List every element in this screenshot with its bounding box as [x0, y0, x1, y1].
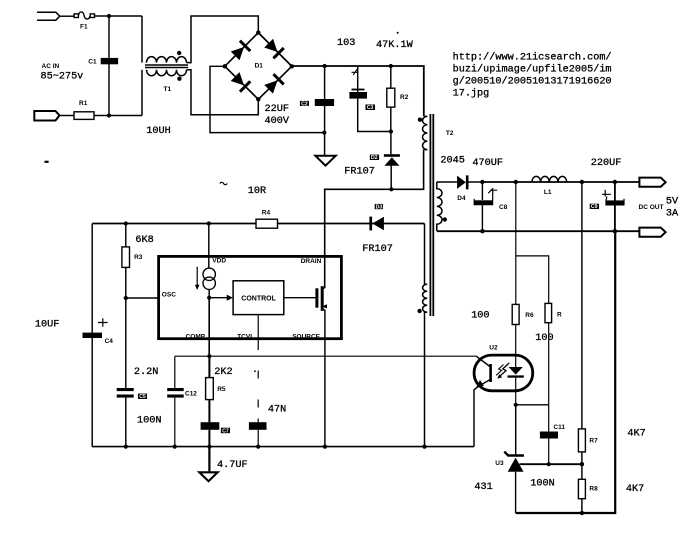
label T1 — [164, 86, 172, 93]
node divider junction — [580, 462, 584, 466]
node VDD rail pin — [207, 221, 211, 225]
svg-text:5V: 5V — [666, 197, 679, 208]
wire current source to node — [208, 290, 210, 298]
wire C11 column — [548, 405, 550, 464]
svg-text:10UH: 10UH — [146, 126, 170, 137]
text 100 right — [535, 333, 553, 344]
svg-text:4K7: 4K7 — [627, 428, 645, 439]
label R6 — [525, 312, 534, 319]
wire bottom feedback line — [516, 231, 616, 513]
label C1 — [88, 59, 97, 66]
label D3 — [375, 204, 383, 211]
capacitor C5 — [117, 388, 134, 398]
wire C1 column — [108, 16, 110, 116]
svg-text:COMP: COMP — [186, 333, 206, 340]
node C9 top — [613, 180, 617, 184]
svg-text:g/200510/20051013171916620: g/200510/20051013171916620 — [453, 76, 612, 88]
svg-text:100: 100 — [535, 333, 553, 344]
svg-text:D1: D1 — [255, 63, 264, 70]
node drain D2 junction — [389, 187, 393, 191]
current source arrow head — [195, 285, 200, 290]
text 4K7 top — [627, 428, 645, 439]
wire — [60, 115, 75, 117]
node bus aux — [422, 445, 426, 449]
node bridge right — [290, 64, 294, 68]
svg-text:3A: 3A — [666, 209, 679, 220]
text 220UF — [591, 158, 622, 169]
dash mark — [45, 161, 49, 163]
label TCVL — [237, 333, 254, 340]
label T2 — [446, 130, 454, 137]
node bus source — [323, 445, 327, 449]
svg-text:C8: C8 — [499, 204, 508, 211]
svg-text:400V: 400V — [265, 116, 290, 127]
node ref C11 — [547, 462, 551, 466]
D1 diode bottom-left — [230, 71, 251, 92]
label R5 — [217, 386, 226, 393]
text 2.2N — [134, 367, 158, 378]
bridge rectifier D1 — [225, 33, 292, 100]
T2 aux winding — [423, 224, 428, 447]
control block U1 — [233, 281, 284, 315]
svg-text:R6: R6 — [525, 312, 534, 319]
svg-text:C3: C3 — [367, 105, 374, 111]
label D2 — [370, 155, 379, 162]
node L1 left junction — [514, 180, 518, 184]
capacitor C7 — [201, 422, 220, 430]
wire arrow to control — [209, 295, 233, 301]
svg-text:22UF: 22UF — [265, 104, 289, 115]
label OSC — [162, 292, 176, 299]
wire C2 column — [324, 66, 326, 156]
svg-text:T1: T1 — [164, 86, 172, 93]
T2 secondary winding — [437, 182, 442, 231]
U2 photon arrows — [496, 363, 509, 379]
T2 primary phase dot — [418, 118, 422, 122]
wire drain line — [325, 150, 424, 289]
wire feedback column R6 — [515, 182, 517, 304]
svg-text:4K7: 4K7 — [626, 484, 644, 495]
wire branch to R — [516, 256, 549, 304]
wire 47N to bus — [257, 430, 259, 447]
text 100N — [137, 415, 161, 426]
text 2045 — [440, 155, 464, 166]
svg-text:10UF: 10UF — [35, 320, 59, 331]
svg-text:U3: U3 — [495, 460, 504, 467]
node R2 top — [389, 64, 393, 68]
wire — [60, 15, 74, 17]
T1 phase dot top — [177, 51, 181, 55]
svg-text:R3: R3 — [134, 254, 143, 261]
svg-text:431: 431 — [474, 482, 492, 493]
node bus C12 — [173, 445, 177, 449]
node bus C7 — [207, 445, 211, 449]
transformer T1 common-mode choke — [142, 16, 258, 116]
text AC IN — [42, 63, 60, 70]
wire VDD rail — [92, 223, 424, 225]
node VDD rail R3 — [124, 221, 128, 225]
node bridge bottom — [256, 97, 260, 101]
text 85~275v — [41, 72, 84, 83]
wire U3 cathode — [515, 405, 517, 456]
svg-text:OSC: OSC — [162, 292, 176, 299]
text ~ mark — [220, 182, 227, 185]
text 100N bottom — [530, 478, 554, 489]
label DC OUT — [639, 204, 664, 211]
svg-text:C5: C5 — [139, 394, 146, 400]
wire gate line — [284, 297, 316, 299]
svg-text:47K.1W: 47K.1W — [376, 40, 414, 51]
text 5V — [666, 197, 679, 208]
wire main positive rail — [292, 66, 424, 116]
resistor R1 — [74, 112, 94, 120]
diode D4 — [437, 175, 483, 189]
node bottom rail C8 — [480, 229, 484, 233]
wire C4 column — [91, 224, 93, 447]
DC output terminal bottom — [639, 228, 665, 237]
label DRAIN — [301, 258, 322, 265]
ground symbol comp — [199, 472, 217, 481]
svg-text:17.jpg: 17.jpg — [453, 88, 490, 100]
svg-text:L1: L1 — [544, 189, 552, 196]
capacitor C3 — [349, 66, 391, 132]
label R3 — [134, 254, 143, 261]
node bottom rail C9 — [613, 229, 617, 233]
node bridge top — [256, 30, 260, 34]
resistor R8 — [578, 464, 585, 513]
text 4K7 bottom — [626, 484, 644, 495]
svg-text:C4: C4 — [105, 338, 114, 345]
node LED cathode junction — [514, 403, 518, 407]
svg-text:100N: 100N — [530, 478, 554, 489]
current source U1 — [197, 267, 215, 290]
svg-text:C9: C9 — [591, 204, 598, 210]
resistor R6 — [512, 304, 519, 324]
text url line3 — [453, 76, 612, 88]
capacitor C11 — [540, 432, 558, 439]
wire C5 column — [125, 298, 127, 447]
svg-text:85~275v: 85~275v — [41, 72, 84, 83]
svg-text:R: R — [557, 312, 562, 319]
svg-text:C11: C11 — [553, 424, 565, 431]
capacitor C4 — [83, 318, 108, 338]
T2 aux phase dot — [417, 309, 421, 313]
text 3A — [666, 209, 679, 220]
svg-text:F1: F1 — [80, 24, 88, 31]
svg-text:U2: U2 — [489, 345, 498, 352]
text 2K2 — [214, 367, 232, 378]
DC output terminal top — [639, 178, 665, 187]
fuse F1 — [74, 12, 94, 19]
label R2 — [400, 94, 409, 101]
label C11 — [553, 424, 565, 431]
svg-text:R1: R1 — [79, 100, 88, 107]
D1 diode top-right — [263, 38, 284, 59]
svg-text:R4: R4 — [262, 210, 271, 217]
svg-text:FR107: FR107 — [344, 167, 375, 178]
label R1 — [79, 100, 88, 107]
label C9 — [590, 204, 599, 211]
diode D2 — [384, 132, 400, 190]
text FR107 lower — [362, 244, 393, 255]
optocoupler U2 — [474, 355, 533, 391]
text 10UH — [146, 126, 170, 137]
label D4 — [457, 195, 466, 202]
AC input terminal top — [37, 12, 60, 20]
text 10R — [248, 186, 266, 197]
inductor L1 — [532, 176, 567, 182]
svg-text:6K8: 6K8 — [135, 235, 153, 246]
wire R7 column — [581, 182, 583, 429]
resistor R — [545, 303, 552, 322]
text 47N — [268, 405, 286, 416]
node COMP feedback junction — [207, 354, 211, 358]
svg-text:C1: C1 — [88, 59, 97, 66]
text url line2 — [453, 64, 612, 76]
wire ref line — [520, 463, 583, 465]
svg-text:10R: 10R — [248, 186, 266, 197]
node junction top — [107, 14, 111, 18]
diode D3 — [369, 217, 384, 231]
T2 secondary phase dot — [443, 217, 447, 221]
node R8 bottom — [580, 511, 584, 515]
label C2 — [300, 101, 309, 108]
resistor R5 — [206, 356, 214, 422]
wire ground stub — [208, 447, 210, 473]
IC U1 box — [159, 256, 342, 338]
text 103 — [337, 38, 355, 49]
wire VDD pin column — [208, 224, 210, 269]
label C12 — [185, 390, 197, 397]
ground symbol primary — [315, 156, 335, 166]
svg-text:2K2: 2K2 — [214, 367, 232, 378]
text 6K8 — [135, 235, 153, 246]
svg-text:R8: R8 — [589, 485, 598, 492]
capacitor C2 — [315, 99, 334, 106]
U2 LED — [508, 367, 524, 405]
label L1 — [544, 189, 552, 196]
label R8 — [589, 485, 598, 492]
capacitor C1 — [101, 58, 118, 64]
text 431 — [474, 482, 492, 493]
label R — [557, 312, 562, 319]
resistor R4 — [256, 219, 278, 228]
text FR107 upper — [344, 167, 375, 178]
svg-text:R2: R2 — [400, 94, 409, 101]
D1 diode bottom-right — [263, 73, 284, 94]
node bridge left — [223, 64, 227, 68]
label C5 — [138, 394, 147, 401]
svg-text:R5: R5 — [217, 386, 226, 393]
resistor R2 — [387, 66, 395, 132]
text 4.7UF — [217, 460, 248, 471]
wire C12 column — [174, 356, 176, 446]
wire R6 to LED — [515, 325, 517, 368]
text 100 left — [471, 311, 489, 322]
label C3 — [366, 105, 376, 112]
resistor R3 — [122, 224, 130, 299]
svg-text:47N: 47N — [268, 405, 286, 416]
text url line4 — [453, 88, 490, 100]
node COMP internal — [207, 296, 211, 300]
wire bottom rail left — [94, 115, 142, 117]
resistor R7 — [578, 429, 585, 464]
wire top rail left — [95, 15, 143, 17]
svg-text:2.2N: 2.2N — [134, 367, 158, 378]
wire comp feedback line — [175, 355, 477, 357]
svg-text:4.7UF: 4.7UF — [217, 460, 248, 471]
wire ground bus — [92, 446, 474, 448]
svg-text:100: 100 — [471, 311, 489, 322]
wire OSC pin — [126, 297, 159, 299]
wire R down — [548, 323, 550, 405]
capacitor 47N — [249, 422, 267, 430]
node C2 top — [323, 64, 327, 68]
svg-text:D3: D3 — [376, 204, 383, 210]
svg-text:C12: C12 — [185, 390, 197, 397]
svg-text:C7: C7 — [222, 428, 229, 434]
svg-text:buzi/upimage/upfile2005/im: buzi/upimage/upfile2005/im — [453, 64, 612, 76]
node C2 bottom junction — [322, 131, 326, 135]
svg-text:http://www.21icsearch.com/: http://www.21icsearch.com/ — [453, 52, 612, 64]
svg-text:TCVL: TCVL — [237, 333, 254, 340]
T2 primary winding — [423, 116, 428, 149]
wire output top rail — [482, 181, 639, 183]
text 47K.1W — [376, 32, 414, 51]
node output C8 top — [480, 180, 484, 184]
node snubber bottom — [389, 129, 393, 133]
svg-text:DRAIN: DRAIN — [301, 258, 322, 265]
label D1 — [255, 63, 264, 70]
node R3 OSC junction — [124, 296, 128, 300]
text 470UF — [472, 158, 503, 169]
label F1 — [80, 24, 88, 31]
label R4 — [262, 210, 271, 217]
label U3 — [495, 460, 504, 467]
D1 diode top-left — [230, 40, 251, 61]
svg-text:470UF: 470UF — [472, 158, 503, 169]
svg-text:CONTROL: CONTROL — [241, 295, 276, 302]
svg-text:100N: 100N — [137, 415, 161, 426]
svg-text:C2: C2 — [301, 101, 308, 107]
label VDD — [212, 258, 226, 265]
svg-text:D2: D2 — [371, 155, 378, 161]
wire COMP column — [208, 298, 210, 357]
text url line1 — [453, 52, 612, 64]
svg-text:FR107: FR107 — [362, 244, 393, 255]
label COMP — [186, 333, 206, 340]
U2 phototransistor — [474, 356, 492, 446]
label C7 — [221, 428, 230, 435]
label C4 — [105, 338, 114, 345]
mosfet U1 — [315, 286, 327, 311]
transformer T2 core — [430, 114, 433, 316]
svg-text:T2: T2 — [446, 130, 454, 137]
node bus C5 — [124, 445, 128, 449]
shunt regulator U3 — [504, 452, 524, 513]
svg-text:2045: 2045 — [440, 155, 464, 166]
svg-text:D4: D4 — [457, 195, 466, 202]
svg-text:SOURCE: SOURCE — [292, 334, 320, 341]
T1 phase dot bottom — [177, 77, 181, 81]
wire LED cathode to R — [516, 404, 549, 406]
svg-text:R7: R7 — [589, 438, 598, 445]
label C8 — [499, 204, 508, 211]
node junction bottom — [107, 113, 111, 117]
label U2 — [489, 345, 498, 352]
capacitor C9 — [602, 182, 624, 231]
wire bridge minus bus — [210, 66, 324, 132]
wire C7 to bus — [208, 430, 210, 447]
wire source column — [324, 310, 326, 447]
node L1 right junction — [580, 180, 584, 184]
node bus 47N — [256, 445, 260, 449]
text 10UF — [35, 320, 59, 331]
label R7 — [589, 438, 598, 445]
wire TCVL column — [254, 315, 258, 423]
svg-text:103: 103 — [337, 38, 355, 49]
svg-text:DC OUT: DC OUT — [639, 204, 664, 211]
svg-text:VDD: VDD — [212, 258, 226, 265]
label CONTROL — [241, 295, 276, 302]
svg-text:220UF: 220UF — [591, 158, 622, 169]
text 22UF 400V — [265, 104, 290, 127]
capacitor C12 — [167, 388, 184, 398]
wire output bottom rail — [437, 230, 640, 232]
AC input terminal bottom — [34, 111, 59, 121]
svg-text:AC IN: AC IN — [42, 63, 60, 70]
capacitor C8 — [474, 182, 497, 231]
label SOURCE — [292, 334, 320, 341]
